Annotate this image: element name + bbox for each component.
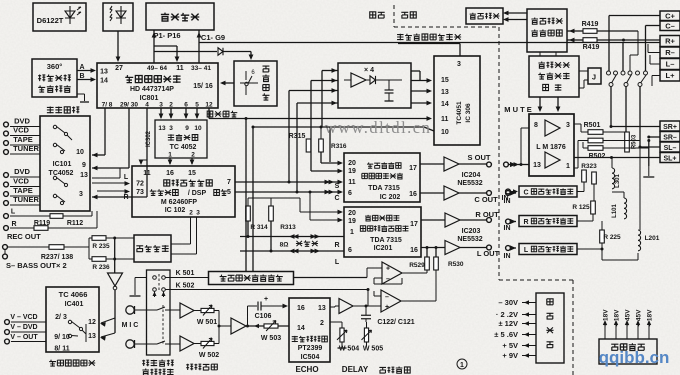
svg-text:TUNER: TUNER	[13, 144, 39, 153]
circled number 1	[457, 359, 467, 369]
wire SL- spur	[649, 146, 652, 148]
wire C1-G9 CPU pin 33-41 to display	[198, 30, 200, 63]
svg-text:16: 16	[297, 305, 305, 312]
svg-text:W 505: W 505	[363, 346, 383, 353]
svg-text:– 18V: – 18V	[614, 309, 621, 327]
svg-text:IC101: IC101	[53, 161, 72, 168]
resistor R503 vertical	[625, 132, 630, 152]
svg-text:19: 19	[348, 218, 356, 225]
svg-text:+: +	[385, 304, 389, 311]
label audio dynamic display circuit	[397, 34, 403, 41]
S-BASS output terminals	[3, 245, 8, 250]
wire to TC4051 pin 10 under watermark	[330, 126, 424, 128]
junction to R235 R236	[88, 238, 90, 259]
inductor L301	[612, 168, 615, 189]
opamp mix A	[382, 262, 402, 284]
remote transmitter D6122T	[33, 3, 86, 31]
svg-text:15: 15	[188, 170, 196, 177]
resistor R530	[434, 257, 439, 270]
wire R530 top to L OUT wire	[435, 248, 437, 258]
svg-text:R112: R112	[67, 220, 83, 227]
K501 contacts	[153, 276, 157, 280]
svg-text:9: 9	[82, 162, 86, 169]
input terminal TAPE 1	[4, 141, 9, 146]
lowpass amp box	[134, 235, 171, 262]
wire meter driver to protect box	[539, 52, 541, 56]
svg-text:R419: R419	[582, 21, 599, 28]
svg-text:L: L	[335, 259, 340, 266]
svg-text:6: 6	[348, 190, 352, 197]
svg-text:NE5532: NE5532	[457, 180, 482, 187]
opamp mix B	[381, 290, 401, 312]
wire mic delay box output	[294, 277, 368, 279]
relay contact 1	[607, 71, 611, 75]
wire CPU pin4 down to IC101 pin3	[146, 108, 148, 197]
svg-text:R: R	[11, 221, 16, 228]
svg-text:– 18V: – 18V	[647, 309, 654, 327]
wire R314 to R loop	[247, 221, 249, 237]
wire dolby pin11 feed	[140, 160, 142, 164]
resistor R225	[600, 230, 605, 243]
svg-text:ECHO: ECHO	[295, 365, 318, 374]
svg-text:– 30V: – 30V	[498, 298, 518, 307]
svg-text:V – VCD: V – VCD	[10, 314, 37, 321]
wires LM1876 outputs to resistors	[574, 123, 581, 125]
wire control verticals to mic delay box	[245, 119, 247, 272]
svg-text:1: 1	[168, 152, 172, 159]
svg-text:7: 7	[227, 179, 231, 186]
IR receiver diode	[103, 3, 133, 31]
svg-text:IC 202: IC 202	[380, 194, 401, 201]
resistor R112 on L line	[50, 214, 63, 219]
svg-text:+ 18V: + 18V	[603, 309, 610, 327]
svg-text:360°: 360°	[47, 62, 63, 71]
svg-text:K 502: K 502	[176, 283, 195, 290]
svg-text:27: 27	[115, 65, 123, 72]
plug control interlock label	[142, 360, 149, 367]
wires IC302 to dolby pins 16 15	[169, 158, 171, 164]
svg-text:IC302: IC302	[146, 130, 152, 147]
wire dolby pin7 S line to IC202 pin11	[235, 181, 341, 183]
wire S OUT into LM1876	[518, 164, 529, 166]
wire A to CPU pin 13	[77, 70, 94, 72]
svg-text:+: +	[386, 266, 390, 273]
front stage label	[370, 12, 376, 18]
CPU IC801 box	[97, 63, 218, 108]
input terminal L	[4, 214, 9, 219]
svg-text:2: 2	[320, 320, 324, 327]
L speaker loop wire	[240, 250, 344, 252]
selector switches IC101 upper	[53, 125, 56, 128]
svg-text:72: 72	[136, 181, 144, 188]
speaker terminal SR-	[660, 132, 680, 142]
svg-text:13: 13	[533, 162, 541, 169]
terminal C-	[660, 21, 680, 31]
svg-text:29/ 30: 29/ 30	[120, 101, 138, 108]
svg-text:11: 11	[176, 65, 184, 72]
echo delay PT2399 IC504 box	[289, 298, 330, 362]
svg-text:1: 1	[350, 229, 354, 236]
svg-text:L201: L201	[645, 235, 660, 242]
svg-text:HD 4473714P: HD 4473714P	[130, 86, 174, 93]
inductor L201	[638, 230, 641, 251]
pot W504	[340, 328, 344, 342]
svg-text:13: 13	[88, 333, 96, 340]
diode D in key-scan line	[154, 51, 217, 53]
svg-text:SL+: SL+	[663, 156, 676, 163]
wire CPU 7/8 to IC101 pin10	[104, 108, 106, 155]
svg-text:VCD: VCD	[13, 177, 29, 186]
svg-text:73: 73	[136, 189, 144, 196]
svg-text:TDA 7315: TDA 7315	[370, 237, 402, 244]
control expander TC4052 IC302	[155, 120, 207, 158]
wire R315 R316 to IC202 pins 19 20	[320, 152, 322, 163]
svg-text:L101: L101	[612, 204, 618, 218]
main channel volume IC201 TDA7315 box	[344, 207, 421, 257]
video terminal V-VCD	[5, 320, 10, 325]
center surround volume IC202 TDA7315 box	[344, 153, 420, 202]
svg-text:33– 41: 33– 41	[191, 65, 211, 72]
svg-text:qqibb.cn: qqibb.cn	[599, 348, 670, 367]
svg-text:16: 16	[410, 247, 418, 254]
svg-text:SL–: SL–	[664, 145, 677, 152]
input terminal TUNER 2	[4, 201, 9, 206]
svg-text:2/ 3: 2/ 3	[55, 314, 67, 321]
svg-text:R 235: R 235	[92, 243, 110, 250]
R speaker loop wire	[240, 236, 344, 238]
opamp mix A output	[402, 272, 427, 274]
opamp C	[444, 186, 459, 200]
svg-text:R501: R501	[584, 122, 601, 129]
opamp S IC204	[444, 157, 459, 171]
svg-text:2: 2	[169, 102, 173, 109]
terminal C+	[660, 11, 680, 21]
svg-text:SR+: SR+	[663, 124, 677, 131]
opamp mix B output	[401, 300, 436, 302]
microphone jack 1	[126, 306, 134, 314]
resistor R119 on R line	[34, 226, 48, 231]
svg-text:J: J	[592, 73, 596, 82]
svg-text:IC 306: IC 306	[465, 103, 472, 123]
wire display circuit to TC4051 pin3	[398, 43, 460, 45]
svg-text:L–: L–	[666, 60, 675, 69]
svg-text:R419: R419	[583, 44, 600, 51]
summing amp	[219, 325, 231, 327]
wire CPU pin12 to TC4051 pin 11	[208, 108, 210, 119]
svg-text:R119: R119	[34, 220, 50, 227]
svg-text:DVD: DVD	[14, 167, 30, 176]
svg-text:TAPE: TAPE	[13, 186, 32, 195]
svg-text:1: 1	[460, 362, 464, 369]
svg-text:+ 45V: + 45V	[625, 309, 632, 327]
svg-text:L: L	[524, 247, 529, 254]
rear stage label	[401, 12, 408, 18]
svg-text:W 502: W 502	[199, 352, 219, 359]
svg-text:L: L	[124, 174, 129, 181]
svg-text:L301: L301	[615, 174, 621, 188]
wire to IC201 pin19	[309, 192, 311, 220]
svg-text:C+: C+	[665, 12, 675, 21]
svg-text:IC504: IC504	[301, 354, 320, 361]
terminal L-	[660, 59, 680, 70]
wire R323 to C amp	[577, 191, 584, 193]
resistor R419 lower	[567, 39, 583, 41]
pot W503	[264, 324, 278, 328]
svg-text:R: R	[523, 219, 528, 226]
svg-text:2: 2	[191, 152, 195, 159]
svg-text:R323: R323	[581, 163, 597, 170]
svg-text:R503: R503	[632, 134, 638, 149]
meter driver circuit box	[527, 9, 567, 52]
resistor R235	[92, 236, 106, 241]
svg-text:49– 64: 49– 64	[147, 65, 167, 72]
long wire top rail to R+ terminal	[199, 42, 660, 44]
wires CPU pins 3 2 6 5 to IC302	[160, 108, 162, 118]
svg-text:3: 3	[566, 122, 570, 129]
input terminal VCD 1	[4, 131, 9, 136]
svg-text:11: 11	[348, 179, 356, 186]
svg-text:+: +	[264, 296, 268, 303]
LM1876 opamp lower	[545, 152, 560, 168]
svg-text:20: 20	[348, 210, 356, 217]
svg-text:C106: C106	[255, 313, 272, 320]
mic delay connect box	[209, 272, 294, 285]
relay J	[588, 68, 601, 84]
svg-text:L+: L+	[666, 71, 676, 80]
input terminal DVD 1	[4, 122, 9, 127]
svg-text:L: L	[11, 209, 16, 216]
svg-text:www.dltdl.cn: www.dltdl.cn	[325, 118, 432, 137]
svg-text:R: R	[334, 242, 339, 249]
echo junction	[246, 325, 289, 327]
wire x4 top jog	[411, 70, 420, 72]
svg-text:13: 13	[158, 125, 166, 132]
svg-text:14: 14	[441, 101, 449, 108]
svg-text:C1- G9: C1- G9	[201, 33, 225, 42]
svg-text:R313: R313	[280, 224, 296, 231]
svg-text:IC204: IC204	[462, 172, 481, 179]
wire R529 top to L OUT wire	[426, 248, 428, 258]
buffer amp triangle	[351, 73, 366, 87]
svg-text:11: 11	[143, 170, 151, 177]
key switch symbol	[245, 71, 247, 80]
svg-text:TC4052: TC4052	[49, 170, 74, 177]
video switch TC4066 IC401 box	[46, 287, 99, 352]
interlock arrows	[153, 292, 157, 297]
svg-text:10: 10	[441, 129, 449, 136]
wire CPU 29/30 to IC101 pin9/13	[128, 108, 130, 168]
svg-text:8Ω: 8Ω	[280, 242, 289, 249]
mic amp 1	[180, 303, 194, 318]
svg-text:14: 14	[297, 325, 305, 332]
input selector IC101 TC4052 box	[40, 116, 90, 211]
wire branch to CPU pin 11	[154, 45, 177, 47]
svg-text:M I C: M I C	[122, 322, 139, 329]
dolby decoder M62460FP IC102 box	[132, 166, 235, 217]
svg-text:± 5 .6V: ± 5 .6V	[494, 330, 518, 339]
wire L to dolby pin72	[92, 182, 128, 184]
svg-text:IN: IN	[504, 225, 511, 232]
svg-text:6: 6	[348, 247, 352, 254]
wire watermark rail left end	[253, 126, 330, 128]
svg-text:IC 102: IC 102	[165, 207, 186, 214]
capacitor C122/C121	[361, 314, 371, 316]
switch inside TC4066	[68, 320, 71, 323]
resistor R529	[425, 257, 430, 270]
R channel power amp box	[519, 216, 577, 227]
svg-text:IC203: IC203	[462, 228, 481, 235]
wire IR receiver to CPU pin 27	[117, 31, 119, 60]
svg-text:–: –	[385, 294, 389, 301]
svg-text:16: 16	[166, 170, 174, 177]
svg-text:5: 5	[195, 102, 199, 109]
svg-text:6: 6	[184, 102, 188, 109]
video terminal V-DVD	[5, 330, 10, 335]
ground in x4 box	[385, 100, 394, 102]
wire inputs to x4 box	[322, 70, 338, 72]
ground under volume box	[77, 93, 85, 95]
relay contact 2	[621, 71, 625, 75]
diode in x4 box	[370, 76, 376, 84]
svg-text:1: 1	[566, 163, 570, 170]
pot W505	[364, 328, 368, 342]
svg-text:C122/ C121: C122/ C121	[377, 319, 414, 326]
relay contact 3	[636, 71, 640, 75]
LM1876 opamp upper	[545, 120, 560, 136]
interlock switch box	[147, 270, 171, 355]
K502 contacts	[153, 288, 157, 292]
wire SR+ line	[611, 126, 660, 128]
speaker terminal SL+	[660, 153, 680, 163]
capacitor C106	[247, 306, 249, 326]
svg-text:R529: R529	[409, 262, 425, 269]
svg-text:V – OUT: V – OUT	[10, 334, 38, 341]
svg-text:3: 3	[196, 210, 200, 217]
svg-text:10: 10	[194, 125, 202, 132]
front stage power supply box	[536, 293, 564, 363]
meter indicator box	[466, 8, 503, 24]
svg-text:9: 9	[185, 125, 189, 132]
svg-text:TUNER: TUNER	[13, 195, 39, 204]
volume control 360 box	[32, 59, 77, 97]
svg-text:19: 19	[348, 168, 356, 175]
svg-text:S: S	[335, 183, 340, 190]
power amp LM1876 box	[529, 114, 574, 176]
svg-text:TC 4052: TC 4052	[170, 144, 197, 151]
svg-text:R 125: R 125	[572, 204, 590, 211]
svg-text:20: 20	[348, 160, 356, 167]
svg-text:12: 12	[205, 102, 213, 109]
wire PT2399 pin2 to W504	[330, 321, 342, 323]
svg-text:DELAY: DELAY	[342, 365, 369, 374]
svg-text:3: 3	[159, 102, 163, 109]
pot W502	[194, 343, 201, 345]
svg-text:R–: R–	[665, 48, 675, 57]
resistor R125	[591, 201, 596, 214]
svg-text:C: C	[334, 195, 339, 202]
C channel power amp box	[519, 186, 577, 197]
L channel power amp box	[519, 244, 577, 255]
inverter triangle	[108, 273, 123, 286]
svg-text:15: 15	[441, 77, 449, 84]
input terminal DVD 2	[4, 173, 9, 178]
control keys box	[234, 61, 277, 106]
wire dolby pin5 C line to IC202 pin6	[235, 191, 341, 193]
mech link dashed mic	[162, 305, 164, 345]
relay verticals down	[610, 87, 612, 127]
svg-text:NE5532: NE5532	[457, 236, 482, 243]
wire x4 outputs to TC4051	[411, 80, 430, 82]
svg-text:R OUT: R OUT	[475, 210, 499, 219]
svg-text:M U T E: M U T E	[504, 105, 532, 114]
mic volume label	[186, 364, 193, 371]
rear stage power supply box	[599, 339, 657, 364]
svg-text:3: 3	[169, 125, 173, 132]
wires protect box to LM1876	[539, 97, 541, 109]
mic tone label	[379, 367, 386, 373]
svg-text:W 501: W 501	[197, 319, 217, 326]
svg-text:13: 13	[100, 69, 108, 76]
input select label	[47, 107, 54, 114]
svg-text:R237/ 138: R237/ 138	[41, 254, 73, 261]
selector switches IC101 lower	[53, 176, 56, 179]
input terminal TAPE 2	[4, 192, 9, 197]
inductor L101	[624, 198, 627, 219]
svg-text:IC801: IC801	[140, 95, 159, 102]
wire keys to CPU 15/16	[222, 82, 234, 84]
svg-text:± 12V: ± 12V	[498, 319, 518, 328]
svg-text:TC4051: TC4051	[456, 101, 463, 125]
svg-text:IC201: IC201	[374, 245, 393, 252]
wire B to CPU pin 14	[77, 79, 94, 81]
video select label	[49, 360, 56, 366]
svg-text:5: 5	[227, 189, 231, 196]
display mux TC4051 IC306	[434, 56, 480, 145]
svg-text:13: 13	[318, 305, 326, 312]
svg-text:IN: IN	[504, 253, 511, 260]
svg-text:REC OUT: REC OUT	[7, 232, 41, 241]
svg-text:K 501: K 501	[176, 270, 195, 277]
wire C+ through relay	[609, 15, 660, 17]
wire R125 to R amp	[592, 214, 594, 221]
svg-text:12: 12	[88, 319, 96, 326]
svg-text:DVD: DVD	[14, 117, 30, 126]
svg-text:3: 3	[457, 61, 461, 68]
IN arrows crossing boundary	[510, 162, 516, 167]
S-BASS inverter feed	[114, 238, 116, 273]
svg-text:13: 13	[441, 89, 449, 96]
svg-text:4: 4	[145, 102, 149, 109]
resistor R236	[92, 257, 106, 262]
dashed boundary front/rear	[393, 5, 395, 27]
svg-text:R 225: R 225	[603, 234, 621, 241]
wire R to dolby pin73	[97, 190, 128, 192]
svg-text:10: 10	[76, 149, 84, 156]
resistor R313	[269, 206, 274, 221]
svg-text:11: 11	[441, 116, 449, 123]
wire C- to relay 3	[646, 25, 661, 27]
svg-text:· 2 .2V: · 2 .2V	[496, 310, 518, 319]
input terminal R	[4, 226, 9, 231]
wire to IC201 pin20	[299, 198, 301, 212]
S OUT node	[487, 162, 492, 167]
terminal R+	[660, 36, 680, 47]
svg-text:V – DVD: V – DVD	[10, 324, 37, 331]
opamp R IC203	[445, 213, 460, 227]
svg-text:TC 4066: TC 4066	[59, 290, 88, 299]
svg-text:3: 3	[79, 191, 83, 198]
wire vertical feeds S C R L to x4	[321, 71, 323, 128]
